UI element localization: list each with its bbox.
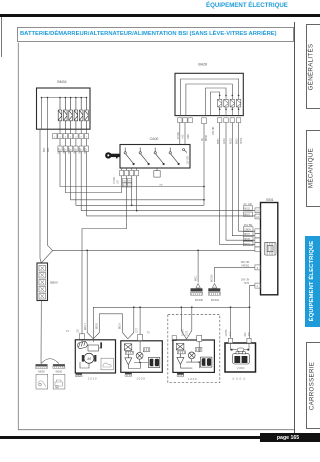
battery cable starter to alternator: [93, 314, 128, 339]
svg-text:1010: 1010: [88, 376, 97, 380]
battery wire labels left: [225, 329, 232, 336]
starter motor 1010 body: [75, 340, 115, 373]
svg-text:4V05: 4V05: [230, 331, 232, 337]
BSI pin 4 labels: [241, 261, 250, 267]
battery feed wire labels: [44, 147, 50, 152]
wire BM34 to BB00 strip: [40, 129, 41, 263]
svg-text:7V NR: 7V NR: [114, 177, 116, 184]
bottom rule: [0, 436, 260, 439]
optional variant dashed enclosure: [168, 315, 220, 383]
svg-text:16: 16: [256, 210, 259, 213]
BSI unit body: [261, 203, 278, 295]
fuse F3 in BM34: [69, 98, 73, 130]
svg-text:M0117: M0117: [85, 322, 87, 330]
svg-text:3: 3: [65, 136, 67, 138]
wire CA00 pin3 to bus4: [131, 176, 133, 206]
alternator 2 internal links: [180, 341, 200, 368]
wire BB00 to earth points: [40, 301, 42, 364]
BH28 left pin boxes: [178, 118, 193, 123]
BH28 inner bus bar 1: [181, 79, 239, 116]
M000 labels: [38, 369, 62, 373]
svg-text:4: 4: [257, 267, 259, 270]
fusebox BM34 body: [37, 88, 91, 129]
svg-text:1: 1: [54, 136, 56, 138]
svg-text:7: 7: [86, 136, 88, 138]
BH28 bus dots: [219, 95, 240, 111]
bus wire 5 (BM34 F5 to BSI pin 16): [81, 152, 255, 211]
earth jumper arc: [41, 359, 59, 364]
svg-text:M011: M011: [244, 207, 250, 210]
bus wire 2 (BM34 F2 to CA00 pin1): [65, 152, 121, 193]
earth point M000 left bar: [36, 364, 48, 368]
sidebar tab ÉQUIPEMENT ÉLECTRIQUE (active, blue): [305, 236, 320, 327]
title box: [17, 27, 295, 42]
CA00 pin labels: [114, 156, 189, 184]
svg-text:BSI1: BSI1: [266, 198, 273, 202]
main positive link wire (starter to battery): [93, 307, 249, 339]
BM34 output wire stubs: [60, 129, 87, 146]
svg-text:MC20A: MC20A: [210, 274, 213, 282]
svg-text:12: 12: [256, 216, 259, 219]
fuse F5 in BM34: [79, 98, 83, 130]
top black rule: [0, 14, 320, 17]
svg-text:2: 2: [59, 136, 61, 138]
starter solenoid pin box: [79, 334, 84, 340]
BH28 wire labels right: [218, 137, 243, 144]
alternator 2 top-left pin box: [172, 336, 176, 341]
BSI group code boxes: [243, 227, 253, 246]
alternator 2 rotor: [188, 352, 195, 359]
svg-text:M000: M000: [38, 369, 45, 373]
battery junction strip BB00: [37, 263, 48, 301]
svg-text:2: 2: [257, 285, 259, 288]
fuse FA in BH28: [218, 95, 222, 115]
starter solenoid body: [88, 345, 99, 351]
CA00 accessory pin 7V: [154, 168, 160, 177]
wire positive link to battery + terminal: [230, 307, 232, 338]
alternator 2 earth stub: [177, 373, 184, 377]
BH28 centre pin box BB0B: [202, 118, 207, 124]
wire BSI pin2 to battery positive: [250, 286, 255, 339]
svg-text:4BV: 4BV: [44, 147, 46, 152]
bus wire 6 (BM34 F6 to BSI pin 12): [87, 152, 256, 216]
svg-text:BB0B: BB0B: [206, 135, 208, 141]
svg-text:CHD4: CHD4: [244, 228, 251, 231]
svg-text:M000: M000: [56, 369, 63, 373]
battery cell icon: [233, 352, 250, 364]
svg-text:8H07: 8H07: [244, 233, 250, 236]
CA00 pin boxes: [120, 170, 139, 176]
BM34 bus junction dots: [41, 97, 88, 99]
svg-text:BM34: BM34: [57, 80, 66, 84]
CA00 switch contact 3: [154, 148, 164, 165]
svg-text:12V GR: 12V GR: [187, 156, 189, 165]
battery terminal pin boxes: [228, 338, 251, 343]
BSI group pins: [255, 229, 261, 252]
CA00 code texts: [123, 181, 132, 188]
svg-text:M011: M011: [244, 243, 250, 246]
BSI group code texts: [244, 228, 251, 245]
wire CA00 pin2 to starter solenoid: [82, 176, 127, 334]
svg-text:10V8A: 10V8A: [225, 329, 228, 336]
fuse F2 in BM34: [64, 98, 68, 130]
page number text: [260, 435, 317, 441]
diagram frame: [18, 43, 294, 430]
wire BH28 BB0B down to feed buses: [203, 124, 205, 206]
wire BH28 FA to BSI: [220, 123, 255, 245]
svg-text:MC20P: MC20P: [195, 299, 204, 302]
wire BH28 to CA00 pin A: [179, 123, 181, 145]
BH28 right pin boxes: [218, 118, 241, 123]
svg-text:M: M: [87, 356, 91, 361]
sidebar tab CARROSSERIE: [306, 342, 320, 429]
alternator regulator pin box: [138, 335, 143, 341]
BSI pin 2: [255, 283, 261, 288]
svg-text:34V NR: 34V NR: [213, 127, 215, 135]
CA00 switch contact 2: [139, 148, 149, 165]
ignition key symbol: [105, 152, 120, 158]
svg-text:2V GR: 2V GR: [244, 203, 252, 206]
wire BH28 FC to BSI: [232, 123, 255, 236]
alternator regulator brushes: [148, 358, 160, 368]
alternator 2 (variant) body: [173, 340, 215, 372]
fuse F6 in BM34: [85, 98, 89, 130]
battery fuse link: [231, 343, 250, 351]
svg-text:+AC: +AC: [182, 134, 185, 139]
svg-text:4: 4: [70, 136, 72, 138]
alternator rotor: [136, 352, 143, 359]
alternator 2 diode triangle: [177, 354, 184, 368]
junction dots on positive link: [133, 306, 251, 308]
wire BH28 to CA00 pin B: [184, 123, 186, 145]
wire link to alternator terminal: [128, 307, 134, 339]
bus wire 3 (BM34 F3 to BH28 relay drop): [71, 152, 204, 200]
svg-text:CH04: CH04: [241, 137, 243, 144]
svg-text:2V HA: 2V HA: [181, 329, 184, 336]
starter inner location icon: [101, 358, 114, 370]
alternator 2 internal dot: [198, 361, 200, 363]
svg-text:CA00: CA00: [150, 137, 159, 141]
alternator diode triangle: [125, 354, 132, 368]
ignition switch CA00 body: [120, 145, 190, 169]
left page edge line: [1, 17, 2, 57]
CA00 wire code boxes: [122, 179, 131, 188]
BH28 wire labels left: [178, 127, 215, 141]
svg-text:A0S2: A0S2: [223, 138, 226, 144]
earth location icon right: [53, 374, 65, 389]
battery V1000 body: [225, 343, 256, 372]
supply bus wire to BSI pin5: [41, 250, 255, 262]
alternator 1020 body: [121, 341, 163, 373]
BM34 connector pin row: [53, 134, 89, 139]
BSI pin 12 code box: [243, 212, 252, 217]
svg-text:7V: 7V: [159, 183, 162, 187]
alternator earth stub: [125, 373, 132, 377]
BSI pin 16: [255, 208, 261, 213]
starter area wire labels: [66, 322, 150, 334]
svg-text:5: 5: [75, 136, 77, 138]
starter contact bar: [100, 342, 102, 348]
svg-text:26V: 26V: [245, 332, 247, 337]
alternator internal dot: [139, 362, 141, 364]
starter solenoid coil: [77, 341, 88, 349]
svg-text:xAB1: xAB1: [187, 133, 190, 139]
svg-text:7275: 7275: [244, 282, 250, 285]
fuse FB in BH28: [224, 95, 228, 115]
bus wire 4 (BM34 F4 to BH28 drop): [76, 152, 204, 206]
svg-text:M011: M011: [195, 275, 197, 281]
svg-text:1020: 1020: [188, 377, 197, 381]
wire BSI pin4 to MC20A: [215, 267, 255, 282]
alternator 2 regulator pin box: [197, 335, 202, 341]
wire link to alternator regulator pin: [139, 307, 141, 334]
alternator 2 connector hatch: [177, 351, 185, 354]
wire BH28 FD to BSI: [239, 123, 255, 232]
alternator 2 regulator brushes: [200, 357, 212, 367]
alternator connector hatch: [125, 351, 133, 354]
junction dots on supply bus: [86, 250, 199, 252]
BM34 lower pin row: [58, 146, 89, 152]
svg-text:1V: 1V: [66, 329, 69, 333]
battery wire labels right: [245, 332, 251, 337]
earth splice MC20P: [191, 250, 204, 302]
wire CA00 pin1 up to bus2: [121, 176, 123, 193]
title text: [20, 31, 294, 37]
svg-text:100: 100: [78, 328, 80, 333]
BH28 inner bus bar 3: [206, 88, 227, 116]
alternator 2 suppressor: [176, 343, 184, 350]
svg-text:BB1B: BB1B: [96, 323, 98, 329]
wire BM34 to supply bus: [48, 129, 53, 251]
header: ÉQUIPEMENT ÉLECTRIQUE: [206, 2, 288, 9]
svg-text:BB00: BB00: [50, 280, 58, 284]
svg-text:1020: 1020: [136, 376, 145, 380]
svg-text:V1000: V1000: [237, 366, 245, 370]
right separator line: [294, 22, 295, 436]
wire supply bus branch to starter terminal: [87, 250, 93, 338]
CA00 switch contact 4: [169, 148, 179, 165]
svg-text:BH28: BH28: [198, 63, 207, 67]
alternator 2 wire labels: [181, 329, 188, 336]
earth point M000 right bar: [53, 364, 65, 368]
alternator suppressor: [124, 344, 132, 351]
fuse FC in BH28: [230, 95, 234, 115]
BM34 internal bus bar: [42, 98, 88, 130]
BH28 inner bus bar 4: [210, 92, 219, 116]
fuse FD in BH28: [236, 95, 240, 115]
starter internal links: [80, 339, 102, 368]
BSI pin 12: [255, 214, 261, 219]
svg-text:8H07: 8H07: [244, 214, 250, 217]
CA00 auxiliary contact: [183, 149, 188, 153]
svg-text:8H05: 8H05: [244, 238, 250, 241]
wire CA00 pin4 to bus5: [136, 176, 138, 211]
alternator internal links: [128, 341, 148, 369]
BSI pin 2 labels: [241, 278, 250, 284]
starter earth stub: [76, 373, 82, 377]
svg-text:1072: 1072: [187, 330, 189, 336]
BM34 pin numbers: [54, 136, 88, 151]
starter motor M: [82, 353, 97, 363]
fuse F1 in BM34: [58, 98, 62, 130]
svg-text:7V: 7V: [147, 331, 150, 335]
svg-text:MC20A: MC20A: [211, 299, 220, 302]
junction box BH28 body: [175, 73, 243, 115]
BSI connector icon: [264, 242, 276, 255]
wire link to alternator 2 terminal: [181, 307, 192, 339]
svg-text:1077: 1077: [136, 327, 138, 333]
sidebar tab GÉNÉRALITÉS: [306, 24, 320, 110]
page number bar: [260, 433, 320, 442]
BM34 wire labels: [59, 147, 88, 153]
earth splice MC20A: [208, 274, 220, 302]
CA00 pin stubs: [122, 168, 137, 170]
alternator small hatch box: [143, 348, 150, 352]
svg-text:6: 6: [81, 136, 83, 138]
alternator 2 small hatch box: [195, 347, 202, 351]
fuse F4 in BM34: [74, 98, 78, 130]
BSI pin 4: [255, 265, 261, 270]
junction dots bus4/bus5: [131, 186, 205, 212]
svg-text:100: 100: [117, 179, 119, 184]
svg-text:0004: 0004: [233, 377, 247, 381]
BSI pin 16 code box: [243, 206, 252, 211]
BH28 inner bus bar 2: [186, 84, 232, 116]
earth location icon left: [36, 374, 48, 389]
CA00 switch contact 1: [124, 148, 134, 165]
sidebar tab MÉCANIQUE: [306, 130, 320, 207]
wire BH28 FB to BSI: [226, 123, 255, 241]
bus wire 1 (BM34 F1 to BH28): [60, 152, 204, 187]
svg-text:BB1A: BB1A: [118, 323, 121, 329]
